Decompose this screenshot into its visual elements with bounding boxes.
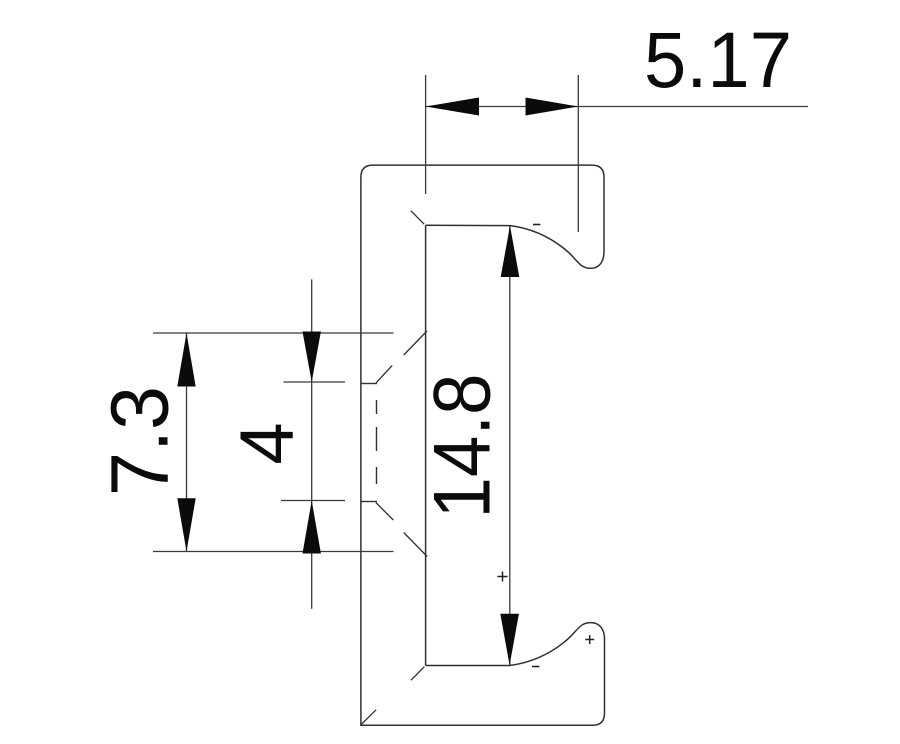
latch notch: upper chamfer segment a	[404, 331, 427, 355]
dim 7.3: top arrow	[177, 333, 195, 387]
latch notch: upper chamfer segment b	[376, 365, 392, 383]
chamfer tick at bottom-left outer corner	[361, 710, 376, 725]
dim 4: top extension line	[284, 381, 346, 383]
dim 4: bottom extension line	[281, 500, 345, 502]
svg-text:7.3: 7.3	[95, 386, 186, 496]
svg-text:14.8: 14.8	[418, 374, 508, 519]
minus mark near bottom arrow	[532, 666, 539, 668]
latch notch: lower shoulder line	[361, 501, 377, 503]
dim 14.8: bottom arrow	[500, 614, 519, 666]
dim 14.8: dimension line	[509, 226, 511, 666]
latch notch: upper shoulder line	[361, 383, 377, 385]
plus mark on dim line	[497, 572, 507, 582]
svg-text:5.17: 5.17	[644, 15, 792, 104]
dim 14.8: top arrow	[501, 226, 520, 277]
profile outer outline with top and bottom hooked arms	[361, 165, 605, 725]
dim 5.17: dimension + leader line	[426, 106, 808, 108]
dim 4: dimension line (extended)	[311, 279, 313, 608]
dim 5.17: right extension line	[577, 75, 579, 232]
dim 4: bottom arrow (outside, pointing up)	[303, 501, 321, 554]
svg-text:4: 4	[225, 422, 310, 464]
chamfer tick at inner top corner	[411, 211, 424, 224]
dim 5.17: left extension line	[425, 75, 427, 194]
dim 7.3: top extension line	[153, 332, 394, 334]
latch notch: lower chamfer segment a	[404, 533, 428, 557]
dim 5.17: right arrow	[526, 98, 579, 116]
plus mark in bottom hook	[585, 635, 594, 644]
dim 4: top arrow (outside, pointing down)	[303, 332, 321, 383]
chamfer tick at inner bottom corner	[411, 667, 424, 681]
latch notch: lower chamfer segment b	[376, 503, 394, 521]
dim 7.3: bottom arrow	[177, 498, 195, 551]
minus mark near top arrow	[533, 224, 540, 226]
inner wall line (continuous)	[425, 225, 427, 665]
dim 5.17: left arrow	[426, 98, 479, 116]
dim 7.3: dimension line	[186, 333, 188, 552]
latch notch: hidden dashed line	[376, 400, 378, 484]
dim 7.3: bottom extension line	[153, 551, 394, 553]
